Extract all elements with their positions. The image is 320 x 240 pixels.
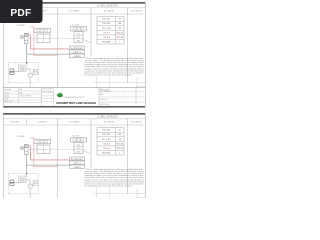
svg-text:PDF: PDF — [10, 8, 31, 19]
